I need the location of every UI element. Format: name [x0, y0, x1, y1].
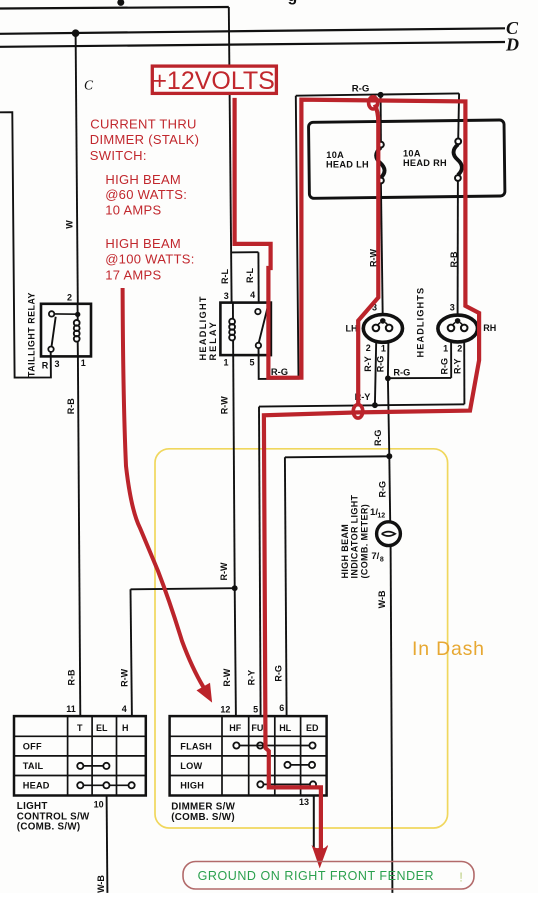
svg-text:R-W: R-W [119, 668, 129, 686]
svg-text:R-G: R-G [271, 366, 288, 377]
svg-text:7/: 7/ [371, 551, 379, 562]
svg-text:5: 5 [253, 705, 258, 715]
svg-text:(COMB. METER): (COMB. METER) [360, 504, 370, 579]
svg-text:EL: EL [96, 723, 108, 733]
svg-text:R-W: R-W [220, 396, 230, 414]
svg-text:R-L: R-L [220, 269, 230, 284]
svg-text:(COMB. S/W): (COMB. S/W) [17, 822, 81, 833]
svg-text:R-G: R-G [393, 367, 410, 377]
svg-text:6: 6 [279, 703, 284, 713]
svg-text:ED: ED [306, 723, 319, 733]
svg-text:1: 1 [81, 358, 86, 368]
svg-text:R-Y: R-Y [453, 358, 463, 374]
svg-text:!: ! [459, 870, 463, 885]
svg-text:R-G: R-G [377, 481, 387, 498]
svg-text:HIGH BEAM: HIGH BEAM [105, 172, 181, 187]
svg-text:1: 1 [443, 344, 448, 354]
svg-text:R-G: R-G [273, 665, 283, 682]
svg-text:W-B: W-B [96, 875, 106, 893]
svg-text:TAIL: TAIL [23, 761, 44, 771]
svg-text:R: R [42, 360, 49, 370]
svg-text:@100 WATTS:: @100 WATTS: [105, 252, 194, 267]
svg-text:13: 13 [299, 797, 309, 807]
svg-text:HEAD LH: HEAD LH [326, 159, 369, 169]
svg-text:D: D [505, 35, 519, 55]
svg-text:R-G: R-G [376, 356, 386, 373]
svg-text:12: 12 [220, 705, 230, 715]
svg-text:GROUND ON RIGHT FRONT FENDER: GROUND ON RIGHT FRONT FENDER [198, 869, 434, 883]
svg-text:FU: FU [251, 723, 263, 733]
svg-text:2: 2 [67, 293, 72, 303]
svg-text:10: 10 [94, 800, 104, 810]
svg-text:FLASH: FLASH [180, 741, 212, 751]
svg-text:HEAD: HEAD [23, 781, 50, 791]
svg-text:R-G: R-G [373, 430, 383, 447]
svg-text:RELAY: RELAY [208, 320, 218, 360]
svg-text:CURRENT THRU: CURRENT THRU [90, 117, 196, 132]
svg-text:DIMMER (STALK): DIMMER (STALK) [90, 132, 199, 147]
svg-text:(COMB. S/W): (COMB. S/W) [171, 812, 235, 823]
svg-text:R-W: R-W [219, 562, 229, 580]
svg-text:R-W: R-W [222, 668, 232, 686]
svg-text:2: 2 [457, 344, 462, 354]
svg-text:OFF: OFF [23, 741, 42, 751]
svg-text:5: 5 [249, 357, 254, 367]
svg-text:W: W [65, 220, 75, 229]
svg-text:12: 12 [377, 513, 385, 520]
svg-text:g: g [288, 0, 298, 5]
svg-text:LH: LH [346, 324, 358, 334]
svg-text:R-B: R-B [66, 398, 76, 414]
svg-text:R-B: R-B [449, 251, 459, 267]
svg-text:10A: 10A [326, 150, 344, 160]
svg-text:DIMMER S/W: DIMMER S/W [171, 802, 235, 813]
svg-text:+12VOLTS: +12VOLTS [152, 67, 275, 95]
svg-text:11: 11 [66, 704, 76, 714]
svg-text:HEAD RH: HEAD RH [403, 158, 447, 168]
svg-text:8: 8 [380, 557, 384, 564]
svg-text:W-B: W-B [377, 590, 387, 608]
svg-text:TAILLIGHT RELAY: TAILLIGHT RELAY [26, 292, 36, 377]
svg-text:T: T [77, 723, 83, 733]
svg-text:4: 4 [122, 704, 127, 714]
svg-text:INDICATOR LIGHT: INDICATOR LIGHT [350, 494, 360, 578]
svg-text:LOW: LOW [180, 761, 202, 771]
svg-text:HIGH BEAM: HIGH BEAM [105, 236, 181, 251]
svg-text:HEADLIGHTS: HEADLIGHTS [415, 287, 425, 358]
svg-text:SWITCH:: SWITCH: [90, 148, 147, 163]
svg-text:R-G: R-G [352, 84, 370, 95]
svg-text:H: H [122, 723, 129, 733]
svg-text:HEADLIGHT: HEADLIGHT [198, 295, 208, 360]
svg-text:17 AMPS: 17 AMPS [105, 268, 161, 283]
svg-text:R-Y: R-Y [363, 356, 373, 372]
svg-text:3: 3 [224, 291, 229, 301]
svg-text:1: 1 [381, 344, 386, 354]
svg-text:HL: HL [279, 723, 291, 733]
svg-text:10 AMPS: 10 AMPS [105, 203, 161, 218]
svg-text:@60 WATTS:: @60 WATTS: [105, 187, 187, 202]
svg-text:R-B: R-B [67, 669, 77, 685]
svg-text:3: 3 [54, 359, 59, 369]
svg-text:4: 4 [250, 290, 255, 300]
svg-text:C: C [84, 78, 94, 93]
svg-text:RH: RH [483, 323, 496, 333]
svg-text:HIGH: HIGH [180, 781, 204, 791]
svg-text:2: 2 [366, 343, 371, 353]
svg-text:HF: HF [229, 723, 241, 733]
svg-text:R-G: R-G [439, 358, 449, 375]
svg-text:R-Y: R-Y [247, 670, 257, 686]
svg-text:1: 1 [223, 357, 228, 367]
svg-text:3: 3 [450, 302, 455, 312]
svg-text:R-L: R-L [245, 268, 255, 283]
svg-text:In Dash: In Dash [412, 638, 485, 660]
